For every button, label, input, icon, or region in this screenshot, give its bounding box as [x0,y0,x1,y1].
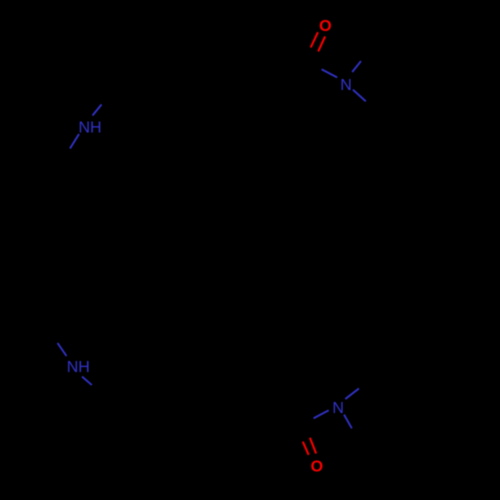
svg-text:O: O [311,458,323,475]
svg-text:NH: NH [78,119,101,136]
svg-text:N: N [332,400,344,417]
svg-text:NH: NH [67,359,90,376]
svg-text:N: N [340,77,352,94]
svg-text:O: O [319,18,331,35]
